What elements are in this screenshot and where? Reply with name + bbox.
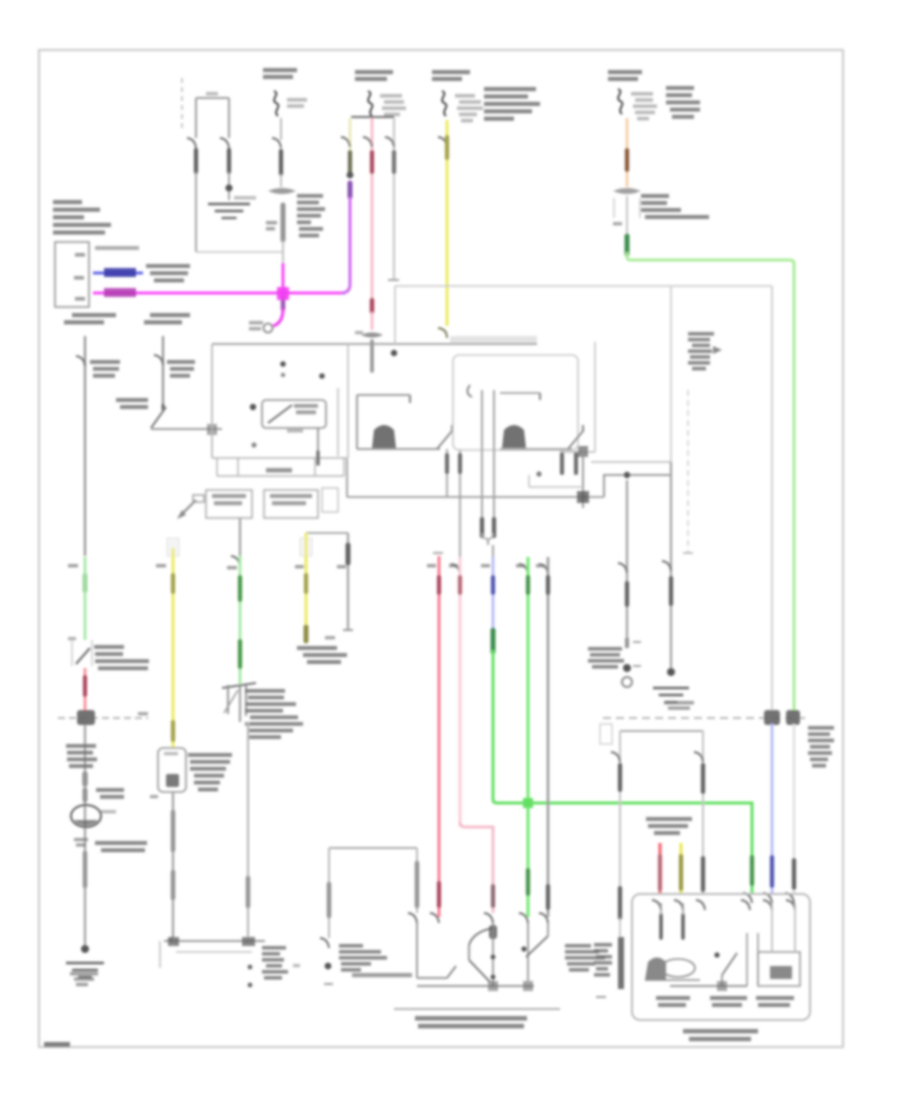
wire x329 xyxy=(328,848,330,938)
connector 1J box x85 xyxy=(68,637,92,666)
fuse WIPER glyph xyxy=(368,91,372,116)
wire x283 mid xyxy=(280,174,282,187)
label header bar fuse WIPER xyxy=(351,116,394,118)
note block left in switch xyxy=(339,944,387,972)
stub bar y487 xyxy=(529,471,583,487)
connector segment x627 brown xyxy=(625,150,629,170)
connector box D1 xyxy=(206,490,252,518)
connector hook x671 xyxy=(662,561,671,571)
connector segment x460 xyxy=(458,577,462,593)
wire x306 yellow xyxy=(305,533,308,640)
connector segment on magenta x283 xyxy=(281,297,286,309)
relay box outer right edge xyxy=(771,286,773,712)
wire x85 red xyxy=(84,668,87,712)
label F3 xyxy=(756,996,794,1007)
connector segment x417 xyxy=(415,863,420,906)
note block right of x163 hook xyxy=(167,360,195,378)
inner rect F xyxy=(758,952,800,986)
connector pin segment x350 xyxy=(348,152,352,172)
wire x173 yellow xyxy=(172,548,175,748)
wire x85 lower gray xyxy=(84,725,86,946)
connector hook x163 xyxy=(154,355,163,365)
connector hook x493 bottom xyxy=(484,913,493,923)
box F outline xyxy=(632,894,810,1020)
fuse ECU-IG glyph xyxy=(618,89,622,114)
note block right margin xyxy=(808,726,834,768)
label front wiper motor xyxy=(646,817,692,835)
relay box outer left drop xyxy=(394,286,396,344)
connector hook x752 bottom xyxy=(743,893,752,903)
end tick x348 xyxy=(325,630,353,639)
connector segment x372 dark red xyxy=(370,300,375,312)
junction dot above ground G1 xyxy=(225,184,232,191)
connector segment x681 xyxy=(679,856,683,889)
wire x173 lower gray xyxy=(172,792,174,938)
footer page number xyxy=(44,1042,70,1047)
label F2 xyxy=(710,996,747,1007)
grommet blob x85 xyxy=(77,710,95,725)
wire x283 magenta upper xyxy=(282,263,285,311)
wire x439 red xyxy=(438,556,441,917)
fuse ECU-IG value text xyxy=(631,92,657,120)
connector segment x173 long xyxy=(171,812,176,850)
connector pin segment FL left leg xyxy=(194,150,198,172)
wire x493 blue xyxy=(492,557,495,634)
wire x772 lavender xyxy=(771,724,774,893)
highlight band on bus xyxy=(450,336,537,343)
pin label 2D xyxy=(75,297,85,301)
connector segment x794 xyxy=(792,860,796,888)
connector hook x548 top xyxy=(539,564,548,574)
wire x348 drop xyxy=(347,533,349,630)
inline connector lens x283 xyxy=(268,188,296,194)
washer motor ellipse xyxy=(71,805,116,827)
connector segment x627 dark green xyxy=(625,236,630,254)
bus bottom-left xyxy=(164,940,265,942)
note block engine room main wire xyxy=(94,645,149,670)
connector segment x703 a xyxy=(701,765,705,792)
note block mid-right margin xyxy=(688,332,722,370)
bracket bar y848 xyxy=(329,847,417,849)
connector segment x620 b xyxy=(618,888,622,918)
junction dot on bus at x394 xyxy=(391,350,397,356)
connector body bar xyxy=(618,937,624,989)
box C switch arm xyxy=(568,425,583,449)
switch arm F center xyxy=(722,953,737,986)
label fuse WIPER column xyxy=(355,70,393,81)
end blob x306 xyxy=(304,627,309,641)
fusible link FL MAIN loop xyxy=(196,92,229,138)
tiny label below box H xyxy=(150,795,158,798)
junction blob magenta at x283 xyxy=(277,287,289,300)
connector segment x306 olive xyxy=(304,575,308,592)
box A left edge xyxy=(211,344,213,458)
mist contact row xyxy=(417,966,456,978)
end tick x688 xyxy=(683,552,693,554)
underline wiper switch xyxy=(394,1008,560,1010)
junction blob at box A edge xyxy=(207,424,217,435)
ground G1 xyxy=(208,196,256,218)
jog y475 to strip xyxy=(603,475,605,497)
wire x627 gray mid xyxy=(626,196,628,236)
note block spiral cable xyxy=(297,646,347,664)
wire x163 upper gray xyxy=(162,336,164,405)
box C contact pins xyxy=(562,453,576,473)
connector hook x350 xyxy=(341,137,350,147)
box F entry hooks xyxy=(652,900,795,910)
washer switch box H xyxy=(158,748,186,792)
middle contact pin b xyxy=(459,449,461,557)
pin dot box A lower-left xyxy=(251,442,256,447)
connector hook x329 bottom xyxy=(320,938,329,948)
pin label 2C xyxy=(74,276,84,280)
right pivot switch xyxy=(521,923,548,957)
wire x350 pale yellow drop xyxy=(349,118,352,172)
stub above red x439 xyxy=(433,552,443,554)
tiny label x173 xyxy=(156,564,166,567)
link bar y475 xyxy=(603,474,670,476)
box A bottom edge xyxy=(212,457,348,459)
label column x85 header xyxy=(64,313,116,324)
connector segment x671 xyxy=(669,578,673,604)
connector segment x627 xyxy=(625,583,629,605)
junction dot x350 xyxy=(347,172,354,179)
pin dots inside box A top xyxy=(280,361,325,379)
connector hook x240 xyxy=(231,556,240,566)
inner verticals F xyxy=(747,933,758,986)
junction dot x671 xyxy=(667,668,675,676)
white cap x306 xyxy=(300,538,312,556)
contact pair merge xyxy=(482,533,493,557)
relay box outer top xyxy=(395,285,772,287)
connector segment x240 green a xyxy=(238,577,242,600)
link bar y462 xyxy=(591,461,671,463)
check connector plug xyxy=(222,683,256,722)
middle switch top contact xyxy=(357,395,410,403)
dashed lead-in line xyxy=(181,78,183,131)
note windshield washer motor xyxy=(95,841,147,852)
wire x703 xyxy=(702,731,704,893)
junction dot x85 bottom xyxy=(81,945,89,953)
connector segment x173 lower2 xyxy=(171,872,176,898)
junction X x583 xyxy=(577,450,589,508)
wire FL left leg lower xyxy=(195,172,197,252)
marks below motor xyxy=(74,838,88,847)
note block bottom-left xyxy=(262,946,288,980)
box C outline xyxy=(453,355,578,450)
wire x493 green lower xyxy=(493,650,752,893)
note block washer switch xyxy=(188,753,232,791)
connector pin segment x283 upper xyxy=(279,151,283,174)
tiny label x306 xyxy=(295,565,304,568)
grommet blob x772 xyxy=(764,710,780,725)
connector hook x548 bottom xyxy=(539,913,548,923)
caption wiper switch xyxy=(415,1016,527,1028)
connector segment x660 xyxy=(658,856,662,889)
wire FL right leg to ground xyxy=(228,172,230,200)
inner wire box A right xyxy=(337,388,339,456)
bus left bracket xyxy=(159,941,161,968)
contact pair dark segments xyxy=(482,519,494,536)
wire x417 inner drop xyxy=(416,923,418,966)
connector segment x85 green xyxy=(83,575,87,591)
tiny label left x627 xyxy=(613,222,622,225)
end tick x329 xyxy=(324,983,333,985)
junction dot x627 xyxy=(623,664,631,672)
label fuse ECU-IG column xyxy=(608,70,642,81)
connector segment x772 xyxy=(770,857,774,886)
wire x660 red xyxy=(658,843,661,893)
fuse WASHER glyph xyxy=(442,91,446,116)
note block far top-right xyxy=(666,86,700,119)
label F1 xyxy=(656,996,690,1007)
dashed guide x688 xyxy=(687,390,689,553)
connector box dashes x627 xyxy=(614,198,640,218)
connector segment x703 b xyxy=(701,858,705,890)
connector segment violet x350 xyxy=(348,183,353,197)
pin drops F right xyxy=(772,903,795,952)
end hook x447 into module xyxy=(438,328,447,338)
note 2 lines right x85 xyxy=(96,788,124,799)
junction green cross xyxy=(523,798,533,808)
pin dot bus b xyxy=(248,983,253,988)
fuse AM2 value text xyxy=(287,98,307,108)
contact pair verticals xyxy=(482,390,494,535)
connector segment x173 olive upper xyxy=(171,575,175,592)
label on box A lower rail xyxy=(266,468,292,473)
pin dot box A mid-left xyxy=(250,404,256,410)
connector hook x528 top xyxy=(519,564,528,574)
junction blob bus x173 xyxy=(168,937,179,946)
wire x460 pale pink xyxy=(459,557,462,826)
connector hook x417 bottom xyxy=(408,913,417,923)
connector segment x493 blue-green xyxy=(491,630,496,652)
box C bottom corner link xyxy=(560,342,595,452)
wire x350 violet xyxy=(341,197,350,293)
middle contact pin a xyxy=(446,449,448,497)
wire magenta bus xyxy=(93,292,345,295)
middle switch arm xyxy=(437,425,452,449)
ground G2 body ground xyxy=(66,963,104,986)
wire x447 yellow xyxy=(446,120,449,326)
wire into relay block A xyxy=(151,428,222,430)
fuse WIPER value text xyxy=(380,94,406,116)
wire x248 lower gray xyxy=(247,722,249,938)
junction blob y452 xyxy=(578,446,588,457)
connector segment x493 blue xyxy=(491,577,495,593)
connector segment x752 green xyxy=(750,857,754,884)
fuse WASHER value text xyxy=(455,94,483,122)
note block right of x85 hook xyxy=(90,360,120,378)
connector segment x439 upper xyxy=(437,577,441,593)
wire x372 pale red lower xyxy=(371,312,374,330)
note block right of x627 xyxy=(641,194,709,219)
wire x240 upper gray xyxy=(239,518,241,556)
connector hook x372 xyxy=(363,137,372,147)
note block right of switch xyxy=(565,944,605,972)
wire x620 xyxy=(619,731,621,893)
middle switch left post xyxy=(356,395,358,449)
connector segment x248 xyxy=(246,878,251,906)
connector hook x394 xyxy=(385,137,394,147)
wire x528 green xyxy=(527,557,530,917)
ground G3 xyxy=(653,688,694,710)
white cap x173 xyxy=(167,538,179,556)
note block ACC relay xyxy=(146,264,190,282)
elbow x173 to bus xyxy=(166,934,173,941)
connector segment x173 olive lower xyxy=(171,722,175,740)
tiny label x460 xyxy=(449,564,458,567)
cowl dashed line left xyxy=(58,717,148,719)
connector segment x548 lower xyxy=(546,886,550,908)
connector segment x548 upper xyxy=(546,577,550,593)
strip bus y497 xyxy=(347,496,604,498)
label left of eyelet 2A xyxy=(249,321,263,330)
connector hook x283 xyxy=(272,138,281,148)
label right of lens x283 xyxy=(297,194,325,237)
switch arm center bottom xyxy=(469,928,493,982)
wire x240 green xyxy=(239,556,242,684)
fuse box body xyxy=(55,242,89,307)
wire below fuse AM2 xyxy=(280,118,282,140)
connector box D3 xyxy=(322,488,338,512)
connector segment x493 lower xyxy=(491,886,495,906)
label fuse WASHER column xyxy=(432,70,470,81)
grommet blob x794 xyxy=(786,710,800,725)
wire x671 drop xyxy=(670,462,672,668)
middle switch motor blob xyxy=(372,425,396,448)
noise filter cluster xyxy=(588,638,641,669)
tiny label x528 xyxy=(516,564,525,567)
connector segment x85 dark red xyxy=(83,677,87,695)
note block instrument panel wire xyxy=(66,744,97,768)
wire x460 jog to x493 xyxy=(460,822,493,913)
bus inner line xyxy=(176,951,252,953)
wire x627 drop xyxy=(626,480,628,638)
connector hook x85 xyxy=(76,356,85,366)
junction blob bus x248 xyxy=(242,937,255,946)
module bus line L1 xyxy=(212,343,537,345)
connector hook x627 xyxy=(618,563,627,573)
connector hook x528 bottom xyxy=(519,913,528,923)
switch bus bottom xyxy=(417,981,534,991)
box C bottom rail xyxy=(500,448,572,450)
pin segment x661 in F xyxy=(659,903,663,938)
box C top contact xyxy=(500,393,540,400)
wire x548 gray xyxy=(547,557,550,917)
inline connector lens x372 xyxy=(355,331,383,338)
note block front washer xyxy=(245,689,303,739)
connector blob x348 xyxy=(346,545,351,563)
tiny label right of dashes xyxy=(138,712,148,715)
label MIST row xyxy=(352,973,412,977)
switch arm diagonal left xyxy=(151,407,166,428)
strip left riser xyxy=(346,459,348,497)
wire x283 to magenta xyxy=(282,240,284,263)
junction dot x627 y475 xyxy=(624,472,630,478)
caption below box F xyxy=(683,1029,758,1041)
inline connector lens x627 xyxy=(613,188,641,194)
connector hook on FL left leg xyxy=(187,138,196,148)
note block left of switch xyxy=(116,398,148,409)
wire x627 pale orange xyxy=(626,118,629,187)
pin dot bus a xyxy=(248,965,253,970)
tiny label 2E left of wire xyxy=(266,221,277,230)
connector hook x447 xyxy=(438,137,447,147)
magenta hook into connector 2A xyxy=(273,309,283,326)
contact dot F center xyxy=(714,952,719,957)
curve mark in box C xyxy=(467,385,472,397)
middle switch bottom rail xyxy=(357,448,440,450)
connector pin segment FL right leg xyxy=(227,150,231,172)
connector segment x240 green b xyxy=(238,641,242,667)
tiny label x85 xyxy=(68,564,78,567)
connector 2A eyelet xyxy=(264,324,273,333)
connector cluster marks xyxy=(594,943,612,977)
connector hook x772 bottom xyxy=(763,893,772,903)
connector hook on FL right leg xyxy=(220,138,229,148)
wire blue ACC xyxy=(93,272,143,275)
wire x794 white lower xyxy=(793,724,795,893)
wire green top-right run xyxy=(627,252,794,712)
box C motor blob xyxy=(502,425,526,448)
tiny mark right of note xyxy=(293,964,300,967)
connector segment x620 a xyxy=(618,765,622,790)
switch contact tick x163 xyxy=(162,404,165,410)
spiral cable bracket xyxy=(306,532,348,534)
connector pin into relay box x372 xyxy=(370,341,374,371)
note block top-center xyxy=(484,87,540,121)
connector blob x85 b xyxy=(83,790,88,800)
wire code text on magenta xyxy=(104,288,136,297)
connector hook x460 xyxy=(451,564,460,574)
label AM2 fuse column xyxy=(263,68,297,79)
bus in F xyxy=(670,981,747,991)
wire x528 inner xyxy=(527,923,529,981)
tiny label x493 xyxy=(481,564,490,567)
connector segment x528 upper xyxy=(526,577,530,593)
pin dot x329 xyxy=(325,963,332,970)
connector hook x703 up xyxy=(694,752,703,762)
key symbol xyxy=(177,495,204,519)
tiny label x240 xyxy=(227,566,237,569)
label column x163 header xyxy=(144,313,190,324)
pin segment x683 in F xyxy=(681,903,685,938)
connector segment x439 lower xyxy=(437,883,441,906)
cowl dashed line right xyxy=(603,717,805,719)
connector pin segment x283 long dark xyxy=(281,205,286,240)
end tick x394 xyxy=(388,279,399,281)
wire x85 green xyxy=(84,557,87,640)
junction box 2A tick label xyxy=(95,246,139,250)
pin wire from relay A xyxy=(317,428,319,464)
note block power source xyxy=(53,200,111,235)
box A lower rail xyxy=(217,458,344,476)
connector pin segment x372 upper xyxy=(370,152,374,172)
box A right edge xyxy=(347,344,349,458)
connector box D2 xyxy=(264,490,318,518)
tiny label x548 xyxy=(536,564,545,567)
connector pin segment x394 xyxy=(392,152,396,172)
wire x417 xyxy=(416,848,418,913)
eyelet x627 xyxy=(622,677,632,687)
wire code on blue xyxy=(104,268,136,277)
connector segment x329 xyxy=(327,884,332,916)
connector blob x85 a xyxy=(82,774,88,784)
bracket bar y731 xyxy=(620,730,703,732)
connector hook x794 bottom xyxy=(785,893,794,903)
connector segment x528 lower xyxy=(526,870,530,894)
